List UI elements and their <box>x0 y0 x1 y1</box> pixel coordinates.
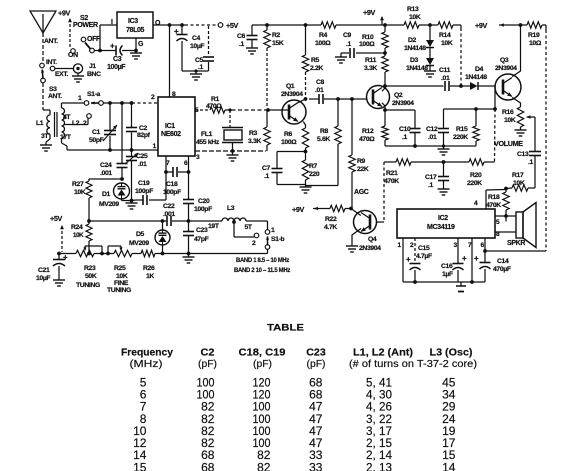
ground (C23) <box>183 254 195 264</box>
capacitor C18 100pF <box>163 167 189 196</box>
wire VFO tuning rail <box>57 252 267 256</box>
resistor R4 100Ω <box>315 22 336 47</box>
svg-text:2N3904: 2N3904 <box>392 100 414 107</box>
potentiometer R23 50K TUNING <box>76 246 102 289</box>
ground (Q4) <box>346 246 358 252</box>
wire audio line <box>384 160 495 164</box>
svg-text:C18, C19: C18, C19 <box>239 347 286 358</box>
wire IC1 pin 6 <box>184 156 190 174</box>
svg-text:S2: S2 <box>80 15 88 22</box>
wire S2 to IC3 input <box>94 25 117 52</box>
svg-text:220: 220 <box>309 171 320 178</box>
svg-text:S1-a: S1-a <box>87 91 101 98</box>
svg-text:15: 15 <box>133 460 147 471</box>
svg-text:470K: 470K <box>486 202 501 209</box>
resistor R20 220K <box>467 159 484 187</box>
wire Q4 emitter <box>352 229 361 247</box>
switch S1-b <box>246 221 285 254</box>
switch S3 ANT (INT/EXT) <box>40 59 69 100</box>
resistor R10 100Ω <box>359 25 388 55</box>
svg-text:G: G <box>138 41 144 48</box>
svg-text:.01: .01 <box>441 75 450 82</box>
svg-text:1N4148: 1N4148 <box>404 45 426 52</box>
wire IC1 pin 8 to +5V <box>170 25 177 98</box>
svg-text:AGC: AGC <box>354 189 369 196</box>
svg-text:.001: .001 <box>163 211 175 218</box>
capacitor C4 10µF <box>174 25 209 71</box>
svg-text:IC3: IC3 <box>128 18 138 25</box>
svg-text:C13: C13 <box>517 151 529 158</box>
resistor R12 470Ω <box>359 110 388 146</box>
svg-text:C24: C24 <box>100 162 112 169</box>
capacitor C17 .1 <box>425 162 449 189</box>
capacitor C21 10µF <box>36 253 68 282</box>
svg-text:C23: C23 <box>196 227 208 234</box>
wire Q4 base <box>377 221 385 223</box>
svg-text:Q3: Q3 <box>500 57 509 64</box>
svg-text:470Ω: 470Ω <box>359 136 375 143</box>
capacitor C2 82pf <box>126 103 151 150</box>
svg-text:+: + <box>174 27 179 36</box>
inductor L2 17T + 4T tap <box>60 103 80 150</box>
svg-text:5T: 5T <box>245 224 253 231</box>
svg-text:IC2: IC2 <box>438 215 448 222</box>
resistor R9 22K <box>349 99 369 209</box>
svg-text:10µF: 10µF <box>190 43 204 50</box>
svg-text:R13: R13 <box>407 6 419 13</box>
svg-text:IC1: IC1 <box>165 123 175 130</box>
svg-text:10K: 10K <box>116 273 128 280</box>
svg-text:100pF: 100pF <box>194 206 212 213</box>
wire Q1 collector <box>298 97 307 103</box>
resistor R1 470Ω <box>195 96 268 114</box>
svg-text:50pF: 50pF <box>89 137 104 144</box>
diode D4 1N4148 <box>461 66 496 90</box>
svg-text:C11: C11 <box>439 67 451 74</box>
capacitor C11 .01 <box>439 67 463 91</box>
svg-text:L2: L2 <box>72 120 80 127</box>
capacitor C20 100pF <box>183 172 212 221</box>
svg-text:R25: R25 <box>114 265 126 272</box>
+9V label (audio) <box>475 21 508 30</box>
svg-text:2, 13: 2, 13 <box>366 460 392 471</box>
+9V label (main rail) <box>363 8 384 25</box>
resistor R7 220 <box>302 152 320 185</box>
wire detector top line <box>444 107 497 111</box>
svg-text:C14: C14 <box>497 258 509 265</box>
resistor R13 10K <box>404 6 421 28</box>
svg-text:NE602: NE602 <box>161 131 181 138</box>
svg-text:R5: R5 <box>311 57 320 64</box>
svg-text:+5V: +5V <box>226 21 238 30</box>
svg-text:+9V: +9V <box>58 9 70 18</box>
svg-text:FL1: FL1 <box>201 131 213 138</box>
wire +5V rail <box>153 21 238 30</box>
ground (R7/C7) <box>300 185 312 194</box>
capacitor C25 .01 (trimmer) <box>125 150 148 201</box>
svg-text:R12: R12 <box>362 128 374 135</box>
resistor R8 5.6K <box>306 99 342 186</box>
svg-text:4.7µF: 4.7µF <box>416 253 432 260</box>
ground (D3) <box>424 71 436 77</box>
wire AGC feedback to Q4 base <box>383 162 385 222</box>
wire Q1 base <box>268 109 283 111</box>
transistor Q1 2N3904 <box>281 83 306 124</box>
ground (IC3 / C3) <box>130 38 142 59</box>
svg-text:R16: R16 <box>502 109 514 116</box>
svg-text:C17: C17 <box>425 174 437 181</box>
svg-text:15K: 15K <box>272 40 284 47</box>
resistor R2 15K <box>264 25 284 108</box>
capacitor C1 50pF (variable) <box>89 103 117 150</box>
wire IC2 pin 7 <box>468 238 474 284</box>
svg-text:D3: D3 <box>410 57 419 64</box>
svg-text:100µF: 100µF <box>107 64 126 71</box>
svg-text:470µF: 470µF <box>493 266 511 273</box>
svg-text:C12: C12 <box>426 126 438 133</box>
svg-text:R19: R19 <box>528 32 540 39</box>
svg-text:BAND 1 8.5 – 10 MHz: BAND 1 8.5 – 10 MHz <box>236 257 290 264</box>
wire Q2 collector <box>382 84 444 91</box>
filter FL1 455 kHz <box>196 108 243 151</box>
svg-text:O: O <box>155 20 161 27</box>
svg-text:C18: C18 <box>166 181 178 188</box>
svg-text:R17: R17 <box>512 172 524 179</box>
svg-text:BAND 2 10 – 11.5 MHz: BAND 2 10 – 11.5 MHz <box>234 267 291 274</box>
diode D3 1N4148 <box>406 48 434 73</box>
svg-text:19T: 19T <box>208 223 220 230</box>
+5V label (tuning) <box>50 214 64 252</box>
svg-text:10K: 10K <box>441 40 453 47</box>
svg-text:78L05: 78L05 <box>126 27 145 34</box>
wire L3 tap to contact 2 <box>232 220 259 247</box>
svg-text:R6: R6 <box>284 131 293 138</box>
capacitor C22 .001 <box>163 203 190 226</box>
wire D1 bottom node <box>130 199 136 203</box>
regulator IC3 78L05 <box>111 12 161 48</box>
svg-text:D2: D2 <box>408 37 417 44</box>
wire detector bottom rail <box>385 145 476 147</box>
wire R19 to IC2 supply <box>485 25 546 251</box>
svg-text:.1: .1 <box>239 41 245 48</box>
svg-text:(# of turns on T-37-2 core): (# of turns on T-37-2 core) <box>349 359 477 370</box>
core (L1/L2) <box>55 112 58 137</box>
svg-text:2N3904: 2N3904 <box>281 91 303 98</box>
wire pin7 to C19 <box>149 172 166 200</box>
capacitor C14 470µF <box>474 238 511 282</box>
svg-text:Q1: Q1 <box>286 83 295 90</box>
wire Q2 emitter <box>382 103 387 112</box>
svg-text:R1: R1 <box>211 96 220 103</box>
resistor R27 10K <box>72 179 122 223</box>
svg-text:100Ω: 100Ω <box>315 40 331 47</box>
wire Q1 emitter <box>303 122 305 129</box>
capacitor C24 .001 <box>100 150 128 181</box>
svg-text:.1: .1 <box>198 64 204 71</box>
svg-text:8: 8 <box>172 91 176 98</box>
svg-text:MV209: MV209 <box>99 201 119 208</box>
svg-text:47pF: 47pF <box>194 236 209 243</box>
wire Q3 collector <box>508 23 522 77</box>
svg-text:.1: .1 <box>402 134 408 141</box>
svg-text:100pF: 100pF <box>135 188 153 195</box>
svg-text:D5: D5 <box>136 231 145 238</box>
transistor Q2 2N3904 <box>367 86 415 109</box>
capacitor C7 .1 <box>262 152 306 185</box>
svg-text:+: + <box>110 42 115 51</box>
svg-text:C19: C19 <box>138 180 150 187</box>
speaker SPKR <box>507 203 536 248</box>
wire detector to audio line <box>494 86 497 162</box>
svg-text:R9: R9 <box>357 158 366 165</box>
svg-text:.001: .001 <box>100 170 112 177</box>
svg-text:82pf: 82pf <box>137 132 151 139</box>
svg-text:2N3904: 2N3904 <box>495 65 517 72</box>
wire S1-a to IC1 pin 2 <box>103 94 158 105</box>
svg-text:ANT.: ANT. <box>44 38 58 45</box>
svg-text:+: + <box>462 254 467 263</box>
svg-text:EXT.: EXT. <box>55 71 68 78</box>
svg-text:C22: C22 <box>163 203 175 210</box>
wire tank rail to IC1 pin 1 <box>67 143 158 152</box>
capacitor C15 4.7µF <box>406 238 432 282</box>
svg-text:R14: R14 <box>439 32 451 39</box>
svg-text:1: 1 <box>153 143 157 150</box>
svg-text:D1: D1 <box>102 191 111 198</box>
capacitor C9 .1 <box>341 32 385 58</box>
svg-text:R3: R3 <box>249 130 258 137</box>
svg-text:.1: .1 <box>528 159 534 166</box>
wire +9V rail <box>252 23 461 27</box>
resistor R6 100Ω <box>281 128 309 153</box>
transistor Q3 2N3904 <box>495 57 521 100</box>
svg-text:(pF): (pF) <box>198 359 217 370</box>
capacitor C16 1µF <box>441 238 467 282</box>
svg-text:R23: R23 <box>84 265 96 272</box>
svg-text:(MHz): (MHz) <box>130 359 163 370</box>
svg-text:R21: R21 <box>386 170 398 177</box>
svg-text:C20: C20 <box>198 198 210 205</box>
capacitor C10 .1 <box>385 110 421 148</box>
wire (band-set branch) <box>121 103 123 150</box>
svg-text:100Ω: 100Ω <box>281 139 297 146</box>
ground (C17) <box>438 189 450 195</box>
svg-text:R15: R15 <box>456 126 468 133</box>
svg-text:C21: C21 <box>38 267 50 274</box>
svg-text:14: 14 <box>442 460 456 471</box>
svg-text:(pF): (pF) <box>307 359 326 370</box>
svg-text:VOLUME: VOLUME <box>494 139 523 148</box>
resistor R3 3.3K <box>248 108 270 151</box>
ground (C21) <box>53 280 65 286</box>
capacitor C5 .1 <box>195 26 214 71</box>
resistor R24 10K <box>71 221 92 255</box>
resistor R14 10K <box>438 22 453 47</box>
svg-text:C2: C2 <box>139 125 148 132</box>
wire IC1 pin 3 ground line <box>195 149 266 161</box>
table of component values <box>121 323 477 471</box>
+9V label (AGC) <box>292 205 322 214</box>
ground (L1) <box>40 142 52 151</box>
varactor D1 MV209 <box>99 183 132 208</box>
svg-text:MV209: MV209 <box>129 240 149 247</box>
svg-text:R4: R4 <box>319 32 328 39</box>
IC IC2 MC34119 <box>397 209 495 238</box>
svg-text:1: 1 <box>78 95 82 102</box>
wire IC2 pin 4 <box>474 190 506 210</box>
svg-text:C16: C16 <box>441 263 453 270</box>
svg-text:1N4148: 1N4148 <box>465 74 487 81</box>
inductor L3 19T + 5T <box>189 205 253 231</box>
resistor R21 470K <box>384 159 411 185</box>
ground (C9) <box>335 53 347 63</box>
transistor Q4 2N3904 <box>354 211 382 253</box>
svg-text:R2: R2 <box>272 32 281 39</box>
node AGC <box>354 189 369 196</box>
svg-text:4T: 4T <box>63 114 71 121</box>
svg-text:10K: 10K <box>504 117 516 124</box>
svg-text:100Ω: 100Ω <box>359 41 375 48</box>
ground (C4/C5) <box>190 69 202 80</box>
svg-text:TABLE: TABLE <box>267 323 304 333</box>
inductor L1 3T <box>36 110 50 142</box>
svg-text:OFF: OFF <box>87 36 101 43</box>
svg-text:5.6K: 5.6K <box>317 136 330 143</box>
svg-text:+: + <box>406 255 411 264</box>
switch S1-a <box>62 91 104 105</box>
svg-text:.01: .01 <box>315 87 324 94</box>
svg-text:4.7K: 4.7K <box>324 224 337 231</box>
svg-text:C4: C4 <box>192 35 201 42</box>
potentiometer R16 10K VOLUME <box>494 107 535 148</box>
wire Q3 emitter <box>512 97 520 107</box>
capacitor C23 47pF <box>183 221 209 255</box>
svg-text:R8: R8 <box>320 128 329 135</box>
svg-text:10K: 10K <box>74 189 86 196</box>
wire varactor tuning line <box>89 219 167 223</box>
+9V supply label (battery input) <box>58 9 72 49</box>
resistor R19 10Ω <box>521 22 547 47</box>
svg-text:1: 1 <box>271 227 275 234</box>
resistor R18 470K <box>486 187 509 222</box>
IC IC1 NE602 <box>158 97 195 156</box>
label BAND ranges <box>234 257 291 274</box>
svg-text:C9: C9 <box>343 32 352 39</box>
svg-text:D4: D4 <box>475 66 484 73</box>
svg-text:C25: C25 <box>136 153 148 160</box>
svg-text:C1: C1 <box>92 129 101 136</box>
wire Q4 collector <box>351 209 361 216</box>
svg-text:33: 33 <box>309 460 323 471</box>
svg-text:R7: R7 <box>309 163 318 170</box>
svg-text:L1, L2 (Ant): L1, L2 (Ant) <box>353 347 413 358</box>
svg-text:MC34119: MC34119 <box>427 224 455 231</box>
svg-text:TUNING: TUNING <box>107 287 131 294</box>
svg-text:L1: L1 <box>36 120 44 127</box>
svg-text:C5: C5 <box>195 57 204 64</box>
wire R14 to detector line <box>460 25 462 86</box>
svg-text:POWER: POWER <box>73 22 98 29</box>
svg-text:470K: 470K <box>384 178 399 185</box>
wire L2 tap to contact 2 <box>65 114 92 127</box>
svg-text:10µF: 10µF <box>36 275 50 282</box>
capacitor C13 .1 <box>517 117 541 188</box>
capacitor C8 .01 <box>309 79 367 104</box>
svg-text:10Ω: 10Ω <box>529 40 542 47</box>
svg-text:68: 68 <box>201 460 215 471</box>
svg-text:2: 2 <box>151 94 155 101</box>
svg-text:3T: 3T <box>41 133 49 140</box>
svg-text:3.3K: 3.3K <box>248 138 261 145</box>
ground (J1) <box>72 73 84 82</box>
antenna ANT <box>30 11 58 62</box>
svg-text:C3: C3 <box>113 56 122 63</box>
resistor R15 220K <box>453 107 479 146</box>
ground (R16) <box>515 130 527 136</box>
svg-text:R22: R22 <box>325 216 337 223</box>
ground (C12) <box>438 144 450 155</box>
svg-text:S3: S3 <box>49 86 57 93</box>
svg-text:Frequency: Frequency <box>121 347 173 358</box>
svg-text:R10: R10 <box>362 34 374 41</box>
svg-text:C10: C10 <box>399 126 411 133</box>
svg-text:2N3904: 2N3904 <box>359 245 381 252</box>
svg-text:82: 82 <box>257 460 271 471</box>
wire S3 to L1 <box>43 83 46 110</box>
svg-text:+5V: +5V <box>50 214 62 223</box>
svg-text:2.2K: 2.2K <box>310 65 323 72</box>
svg-text:3.3K: 3.3K <box>364 65 377 72</box>
connector J1 BNC <box>55 63 101 78</box>
svg-text:INT.: INT. <box>46 59 57 66</box>
ground (C25/D1) <box>126 201 138 210</box>
svg-text:Q4: Q4 <box>368 236 377 243</box>
capacitor C12 .01 <box>426 109 449 146</box>
resistor R11 3.3K <box>364 53 388 86</box>
svg-text:2: 2 <box>252 240 256 247</box>
resistor R22 4.7K <box>322 205 353 231</box>
svg-text:R11: R11 <box>365 57 377 64</box>
svg-text:TUNING: TUNING <box>76 282 100 289</box>
capacitor C19 100pF <box>135 180 153 205</box>
svg-text:455 kHz: 455 kHz <box>196 139 220 146</box>
svg-text:L3: L3 <box>227 205 235 212</box>
resistor R5 2.2K <box>302 25 323 97</box>
svg-text:+: + <box>474 254 479 263</box>
svg-text:.1: .1 <box>346 41 352 48</box>
svg-text:470Ω: 470Ω <box>206 103 222 110</box>
capacitor C3 100µF <box>100 42 136 72</box>
svg-text:Q2: Q2 <box>394 92 403 99</box>
svg-text:+9V: +9V <box>475 21 487 30</box>
svg-text:C2: C2 <box>201 347 215 358</box>
svg-text:10K: 10K <box>73 232 84 239</box>
svg-text:+: + <box>63 253 68 262</box>
svg-text:R26: R26 <box>143 265 155 272</box>
svg-text:22K: 22K <box>357 166 369 173</box>
wire IC1 pin 7 <box>164 156 170 174</box>
wire IC2 pin 8 to speaker <box>495 231 516 238</box>
switch S2 POWER <box>68 15 101 59</box>
ground (C6) <box>246 48 258 54</box>
svg-text:C6: C6 <box>237 33 246 40</box>
resistor R17 10K <box>506 172 535 191</box>
svg-text:S1-b: S1-b <box>271 236 285 243</box>
wire IC2 bottom rail <box>403 280 485 284</box>
svg-text:SPKR: SPKR <box>507 240 525 247</box>
svg-text:17T: 17T <box>60 134 72 141</box>
capacitor C6 .1 <box>237 25 258 48</box>
